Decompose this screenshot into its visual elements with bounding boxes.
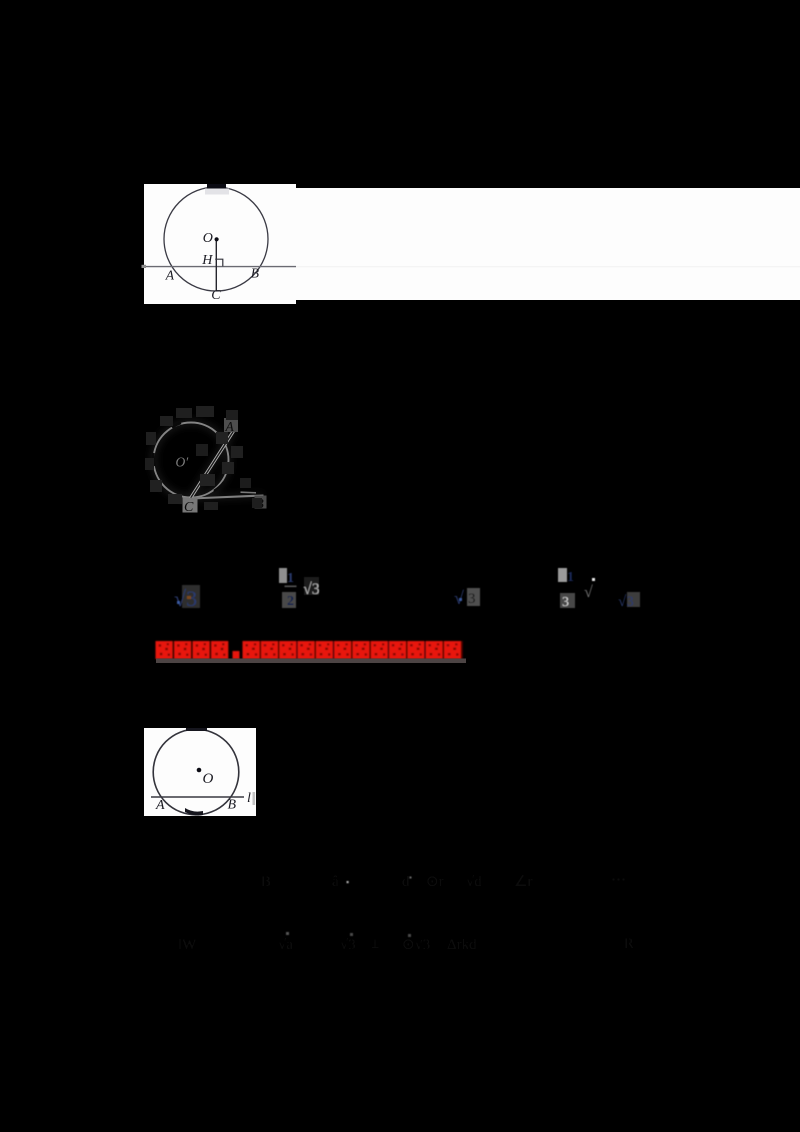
svg-text:√a: √a (278, 937, 293, 953)
figure 2: line CB (191, 496, 264, 499)
figure 2: label B halo (255, 496, 267, 509)
svg-text:√3: √3 (618, 594, 634, 610)
svg-text:B: B (251, 266, 259, 281)
figure 2: circle O' (154, 423, 229, 498)
options row: option C sqrt3 (454, 588, 480, 608)
bottom text row 2: dim glyphs (178, 932, 634, 953)
svg-text:1: 1 (567, 570, 574, 585)
figure 3: chord line l (151, 796, 244, 798)
svg-text:C: C (211, 288, 221, 303)
figure 1: circle with center O (164, 187, 268, 291)
svg-text:lW: lW (178, 937, 197, 953)
figure 1 white strip right (296, 188, 800, 300)
red heading: dark underline strip (156, 659, 466, 664)
svg-text:√3: √3 (303, 581, 320, 598)
svg-text:3: 3 (562, 595, 569, 610)
svg-text:Δrkd: Δrkd (447, 937, 477, 953)
svg-text:⊙r: ⊙r (426, 874, 444, 890)
red heading: blurred bold CJK char-stroke pattern (156, 641, 463, 659)
svg-text:A: A (155, 798, 165, 813)
svg-text:â: â (332, 874, 339, 890)
figure 2: gray haze backdrop (154, 423, 264, 500)
svg-text:2: 2 (287, 594, 294, 609)
svg-text:C: C (184, 500, 194, 515)
figure 1: center dot O (215, 237, 219, 241)
svg-text:√: √ (584, 584, 593, 601)
figure 1: radius OC vertical line (215, 239, 217, 291)
figure 1 white panel left (144, 184, 296, 304)
svg-text:A: A (165, 268, 175, 283)
svg-text:B: B (261, 874, 271, 890)
figure 1: smudge under top bar (205, 189, 229, 195)
figure 1: right angle mark at H (215, 259, 223, 266)
svg-text:1: 1 (287, 571, 294, 586)
svg-text:∠r: ∠r (514, 874, 532, 890)
options row: option D one-third etc (558, 568, 640, 610)
figure 3: circle (153, 729, 239, 815)
figure 3: dark smudge top (186, 728, 207, 731)
figure 3: center dot (197, 768, 202, 773)
svg-text:⊙√3: ⊙√3 (402, 937, 430, 953)
svg-text:H: H (201, 253, 213, 268)
figure 3: faint bar right of l (253, 792, 256, 805)
figure 2: label A halo (224, 418, 238, 432)
svg-text:O: O (203, 771, 214, 787)
svg-text:√3: √3 (340, 937, 356, 953)
svg-text:O: O (203, 231, 213, 246)
svg-text:⋯: ⋯ (611, 872, 626, 888)
svg-text:√d: √d (466, 874, 482, 890)
figure 3: dark smudge bottom (185, 808, 203, 816)
options row: option B one-half sqrt3 (279, 568, 320, 609)
figure 2: dark breaks on circle (153, 423, 224, 491)
figure 1: chord line AB (146, 266, 296, 268)
svg-text:B: B (228, 798, 237, 813)
svg-text:O′: O′ (176, 455, 190, 470)
figure 2: secant dark core (190, 430, 235, 500)
figure 2: secant line AC (190, 430, 235, 500)
svg-text:3: 3 (468, 591, 476, 607)
svg-text:A: A (225, 419, 235, 434)
figure 2: label C halo (183, 498, 198, 513)
svg-text:d: d (402, 874, 410, 890)
figure 1: dark bar at top of circle (207, 184, 226, 189)
figure 2: jpeg block artifacts (145, 406, 262, 510)
figure 3: white panel (144, 728, 256, 816)
svg-text:±: ± (371, 936, 379, 952)
svg-text:√3: √3 (174, 586, 197, 611)
options row: option A sqrt3 (174, 585, 200, 611)
figure 2: short segment near B (241, 491, 257, 494)
svg-text:R: R (624, 936, 634, 952)
svg-text:l: l (247, 791, 251, 806)
figure 1: gray tick left of panel (142, 265, 147, 268)
bottom text row 1: dim glyphs (261, 872, 626, 890)
figure 1: faint line continuation (296, 266, 800, 268)
